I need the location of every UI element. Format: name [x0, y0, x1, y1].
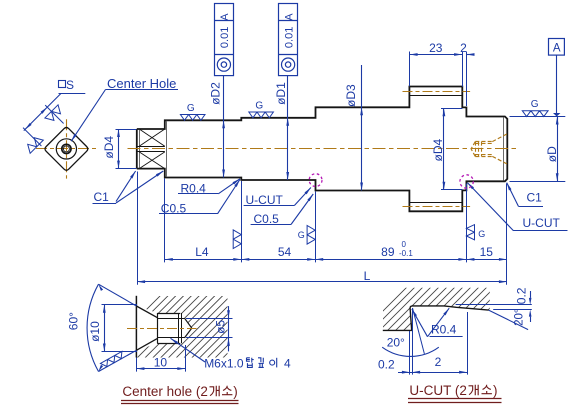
dimension 54 — [241, 259, 315, 261]
svg-text:øD4: øD4 — [102, 136, 116, 159]
svg-text:L: L — [364, 269, 371, 283]
svg-text:ø5: ø5 — [214, 320, 228, 334]
svg-text:G: G — [255, 100, 263, 111]
finish mark on lower extension — [24, 134, 43, 153]
datum A frame — [549, 39, 565, 56]
end view chamfer circle — [56, 139, 76, 159]
u-cut marker circle at 89/15 step — [460, 175, 473, 188]
dimension 0.2 bottom — [398, 372, 467, 374]
center hole detail drill tip — [185, 318, 192, 328]
svg-text:øD1: øD1 — [274, 82, 288, 105]
svg-text:0.01: 0.01 — [219, 27, 231, 48]
svg-text:23: 23 — [429, 41, 443, 55]
svg-text:54: 54 — [278, 245, 292, 259]
svg-text:G: G — [478, 229, 485, 239]
svg-text:C0.5: C0.5 — [254, 212, 280, 226]
dimension 23 gear width — [409, 52, 411, 87]
end view center hole circles — [62, 144, 71, 153]
u-cut marker circle at 54/89 step — [309, 174, 322, 187]
svg-text:G: G — [531, 99, 539, 110]
svg-text:4: 4 — [284, 357, 291, 371]
svg-text:G: G — [298, 230, 305, 240]
svg-text:0.2: 0.2 — [378, 357, 395, 371]
svg-text:A: A — [219, 13, 231, 21]
chamfer edge lines — [139, 129, 141, 168]
svg-text:0: 0 — [402, 240, 407, 249]
finish symbol at 54-section left face — [233, 230, 241, 249]
svg-text:Center Hole: Center Hole — [107, 76, 176, 91]
svg-text:C1: C1 — [94, 190, 110, 204]
dimension oD1 with leader from frame — [287, 75, 289, 180]
dimension 2 groove — [467, 312, 469, 375]
svg-text:60°: 60° — [67, 312, 81, 330]
svg-text:A: A — [553, 43, 561, 55]
dimension L4 — [165, 259, 242, 261]
square-S extension lines — [45, 105, 63, 123]
svg-text:øD4: øD4 — [431, 139, 445, 162]
u-cut detail profile — [383, 306, 489, 331]
center hole detail face line — [135, 296, 137, 358]
dimension oD right end — [510, 116, 566, 118]
svg-text:0.01: 0.01 — [283, 27, 295, 48]
svg-text:M6x1.0: M6x1.0 — [204, 357, 244, 371]
svg-text:2: 2 — [435, 355, 442, 369]
60 degree cone angle dimension — [99, 284, 137, 306]
right 20 degree slope reference — [456, 304, 532, 306]
dimension 89 with tolerance — [315, 259, 466, 261]
dimension oD4 right — [441, 108, 462, 110]
finish marks on cone angle line — [100, 351, 124, 368]
finish symbol G on oD section — [522, 111, 548, 117]
svg-text:S: S — [66, 78, 74, 92]
center hole detail countersink cone — [136, 306, 157, 318]
knurl section cross pattern — [137, 146, 165, 148]
svg-text:R0.4: R0.4 — [431, 323, 457, 337]
shaft outline — [137, 87, 508, 212]
dimension 15 — [466, 259, 507, 261]
svg-text:0.2: 0.2 — [514, 287, 528, 304]
center hole detail center line — [127, 328, 197, 330]
svg-text:89: 89 — [381, 245, 395, 259]
svg-text:øD3: øD3 — [344, 84, 358, 107]
square-S dimension line — [24, 94, 61, 131]
gear pitch center lines — [403, 91, 471, 93]
svg-text:-0.1: -0.1 — [399, 249, 413, 258]
tolerance frame for oD2 (concentricity 0.01 A) — [215, 4, 234, 76]
svg-text:U-CUT (2: U-CUT (2 — [409, 383, 467, 398]
svg-text:): ) — [233, 384, 238, 399]
svg-text:): ) — [493, 383, 498, 398]
right end hidden center hole — [492, 134, 507, 142]
svg-text:C1: C1 — [527, 191, 543, 205]
main center axis — [128, 148, 517, 150]
finish symbol G on oD1 section — [249, 112, 274, 118]
svg-text:øD: øD — [545, 146, 559, 162]
finish symbol at 15-section left face — [466, 225, 474, 240]
svg-text:Center hole (2: Center hole (2 — [122, 384, 208, 399]
svg-text:L4: L4 — [195, 245, 209, 259]
dimension L overall — [137, 281, 507, 283]
tolerance frame for oD1 (concentricity 0.01 A) — [279, 4, 298, 76]
svg-text:ø10: ø10 — [88, 321, 102, 342]
20 degree angle left — [409, 331, 411, 375]
svg-text:20°: 20° — [387, 335, 405, 349]
finish symbol at 89-section left face — [307, 226, 315, 245]
dimension 2 groove width — [466, 52, 468, 107]
svg-text:øD2: øD2 — [209, 82, 223, 105]
dimension 0.2 right — [530, 291, 532, 298]
svg-text:15: 15 — [480, 245, 494, 259]
svg-text:20°: 20° — [514, 309, 526, 326]
svg-text:U-CUT: U-CUT — [246, 193, 284, 207]
svg-text:U-CUT: U-CUT — [523, 216, 561, 230]
dimension o5 — [186, 318, 233, 320]
gear root lines — [409, 95, 462, 97]
dimension oD2 with leader from frame — [223, 75, 225, 177]
end view center lines — [36, 148, 97, 150]
dimension oD3 — [361, 65, 363, 191]
dimension 10 thread depth — [136, 358, 138, 372]
extension lines bottom — [137, 172, 139, 285]
svg-text:A: A — [283, 13, 295, 21]
finish symbol G on oD2 section — [180, 115, 205, 121]
dimension o10 — [102, 304, 138, 306]
svg-text:10: 10 — [154, 355, 168, 369]
dimension oD4 left — [116, 129, 137, 131]
end view square body — [45, 128, 88, 171]
svg-text:2: 2 — [460, 41, 467, 55]
finish mark on upper extension — [45, 105, 64, 124]
center hole detail thread bore — [157, 313, 180, 315]
svg-text:G: G — [187, 103, 195, 114]
